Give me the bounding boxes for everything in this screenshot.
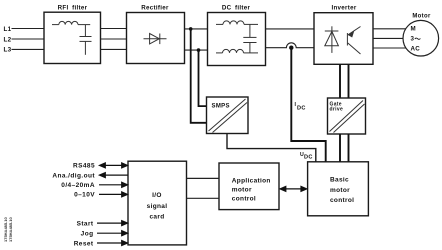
freewheel diode in inverter: [325, 26, 339, 53]
0-10V arrow in: [99, 192, 128, 197]
svg-text:signal: signal: [147, 203, 168, 210]
wire inverter to motor bottom: [373, 47, 406, 49]
svg-text:RS485: RS485: [73, 162, 95, 169]
IGBT in inverter: [347, 27, 360, 55]
junction dot on minus rail: [197, 48, 201, 52]
svg-text:DC filter: DC filter: [222, 4, 251, 11]
wire IDC sense line down: [291, 49, 325, 162]
rectifier box: [127, 13, 185, 64]
application motor control box: [219, 163, 279, 210]
svg-text:Inverter: Inverter: [331, 4, 356, 11]
wire L3: [12, 48, 45, 50]
wire IO to application lower: [187, 197, 220, 199]
wire DC filter to inverter plus rail: [266, 28, 315, 30]
SMPS box: [207, 97, 249, 134]
wire gate drive to basic control right: [348, 134, 350, 162]
bidirectional arrow application to basic: [280, 186, 307, 191]
wire RFI to rectifier top: [101, 28, 127, 30]
svg-text:M: M: [411, 26, 416, 33]
capacitor in RFI filter: [80, 25, 92, 55]
wire inverter down to gate drive right: [348, 64, 350, 98]
svg-text:L3: L3: [4, 47, 12, 54]
svg-text:DC: DC: [304, 155, 313, 161]
svg-text:Basic: Basic: [330, 177, 349, 184]
svg-text:Rectifier: Rectifier: [141, 4, 169, 11]
wire inverter down to gate drive left: [339, 64, 341, 98]
svg-text:L1: L1: [4, 26, 12, 33]
capacitor in DC filter: [243, 24, 256, 53]
svg-text:I/O: I/O: [152, 192, 162, 199]
RS485 bidirectional arrow: [100, 163, 128, 168]
wire RFI to rectifier mid: [101, 38, 127, 40]
svg-text:Ana./dig.out: Ana./dig.out: [52, 173, 95, 180]
wire plus rail down to SMPS: [191, 29, 207, 123]
svg-text:Jog: Jog: [81, 231, 94, 238]
Jog arrow in: [97, 231, 128, 236]
diode in rectifier: [144, 34, 167, 45]
SMPS converter diagonal: [209, 99, 246, 131]
svg-text:Reset: Reset: [74, 240, 94, 247]
svg-text:Application: Application: [232, 177, 271, 184]
svg-text:drive: drive: [330, 107, 344, 113]
top inductor in DC filter: [216, 21, 258, 24]
motor circle: [403, 20, 439, 56]
gate drive box: [328, 98, 366, 134]
wire inverter to motor top: [373, 28, 406, 30]
wire L1: [12, 28, 45, 30]
svg-text:0/4–20mA: 0/4–20mA: [61, 182, 95, 189]
svg-text:control: control: [330, 197, 354, 204]
Reset arrow in: [97, 241, 128, 246]
wire rectifier to DC filter plus rail: [185, 28, 208, 30]
wire SMPS to UDC rail: [227, 134, 316, 162]
bottom inductor in DC filter: [216, 49, 258, 53]
svg-text:0–10V: 0–10V: [74, 192, 95, 199]
svg-text:control: control: [232, 196, 256, 203]
Start arrow in: [97, 221, 128, 226]
junction dot on plus rail: [189, 27, 193, 31]
wire IO to application upper: [187, 177, 220, 179]
svg-text:motor: motor: [232, 187, 252, 194]
svg-text:AC: AC: [411, 45, 421, 52]
wire gate drive to basic control left: [339, 134, 341, 162]
svg-text:DC: DC: [297, 106, 306, 112]
wire inverter to motor mid: [373, 37, 403, 39]
svg-text:SMPS: SMPS: [212, 104, 230, 110]
svg-text:motor: motor: [330, 187, 350, 194]
svg-text:RFI filter: RFI filter: [58, 4, 88, 11]
IO signal card box: [128, 161, 187, 245]
inverter box: [314, 13, 373, 65]
inductor in RFI filter: [52, 21, 90, 24]
current sensor dot: [289, 46, 293, 50]
svg-text:Start: Start: [77, 220, 94, 227]
svg-text:card: card: [149, 213, 164, 220]
wire minus rail down to SMPS: [199, 50, 207, 106]
RFI filter box: [44, 12, 101, 63]
wire rectifier to DC filter minus rail: [185, 49, 208, 51]
svg-text:3: 3: [411, 36, 415, 43]
wire RFI to rectifier bottom: [101, 48, 127, 50]
svg-text:Motor: Motor: [412, 14, 431, 20]
basic motor control box: [308, 162, 369, 216]
svg-text:L2: L2: [4, 36, 12, 43]
svg-text:175HA485.10: 175HA485.10: [8, 217, 13, 242]
0/4-20mA arrow in: [99, 182, 128, 187]
gate drive diagonal: [330, 101, 364, 132]
wire DC filter to inverter minus rail with current sensor loop: [266, 43, 315, 48]
wire L2: [12, 38, 45, 40]
DC filter box: [208, 13, 266, 66]
Ana./dig.out arrow out: [100, 173, 129, 178]
